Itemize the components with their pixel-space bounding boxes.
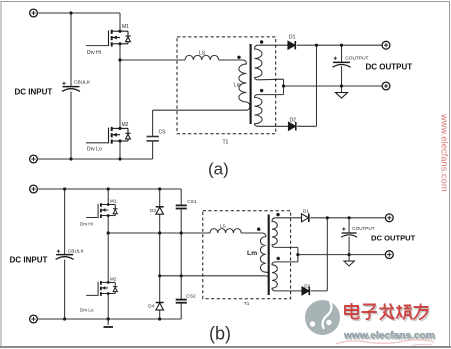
svg-text:M2: M2 [110,276,117,281]
svg-text:CS2: CS2 [186,294,196,300]
svg-text:COUTPUT: COUTPUT [352,226,374,231]
svg-text:CS1: CS1 [187,199,197,205]
svg-text:Drv Hi: Drv Hi [87,50,101,56]
svg-text:DC INPUT: DC INPUT [15,87,53,96]
svg-text:M2: M2 [122,122,129,128]
svg-text:D4: D4 [148,304,154,309]
svg-text:Drv Lo: Drv Lo [80,308,94,313]
svg-text:LS: LS [199,51,206,57]
svg-text:DC OUTPUT: DC OUTPUT [366,63,413,72]
svg-text:Drv Hi: Drv Hi [80,222,93,227]
svg-text:(b): (b) [209,324,231,344]
svg-text:D2: D2 [304,283,310,288]
svg-text:T1: T1 [223,140,229,146]
svg-text:T1: T1 [244,301,250,306]
svg-text:DC INPUT: DC INPUT [10,255,48,264]
svg-text:Lm: Lm [247,250,257,257]
svg-text:D1: D1 [289,34,296,40]
svg-text:Lm: Lm [234,83,241,89]
svg-text:M1: M1 [110,199,117,204]
svg-text:D1: D1 [303,208,309,213]
svg-text:DC OUTPUT: DC OUTPUT [371,233,416,242]
svg-text:LS: LS [220,224,226,229]
svg-text:(a): (a) [208,160,229,179]
svg-text:CS: CS [159,130,167,136]
svg-text:D2: D2 [290,117,297,123]
svg-text:D3: D3 [150,208,156,213]
svg-text:M1: M1 [122,24,129,30]
svg-text:COUTPUT: COUTPUT [345,55,368,61]
svg-text:CBULK: CBULK [74,80,91,86]
svg-text:CBULK: CBULK [68,248,85,254]
svg-text:www.elecfans.com: www.elecfans.com [439,113,450,192]
svg-text:Drv Lo: Drv Lo [87,147,102,153]
